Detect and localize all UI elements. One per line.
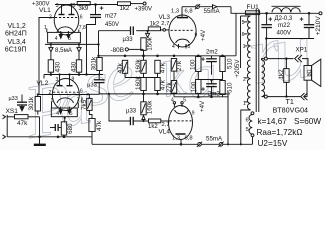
svg-text:1: 1	[243, 44, 246, 50]
svg-text:µ33: µ33	[87, 83, 97, 89]
svg-text:5: 5	[246, 127, 249, 133]
svg-text:430: 430	[55, 61, 62, 72]
svg-text:3k9: 3k9	[79, 6, 89, 12]
svg-text:450V: 450V	[105, 22, 119, 28]
svg-text:6: 6	[80, 15, 83, 21]
svg-text:4: 4	[171, 97, 174, 103]
svg-text:100: 100	[190, 59, 197, 70]
svg-text:1k2: 1k2	[148, 124, 158, 130]
svg-text:3: 3	[56, 77, 59, 83]
svg-text:160k: 160k	[135, 75, 142, 90]
svg-text:ХР1: ХР1	[296, 47, 308, 54]
svg-text:m27: m27	[105, 14, 117, 20]
svg-text:5: 5	[183, 97, 186, 103]
svg-text:+210V: +210V	[315, 16, 322, 36]
svg-text:1k2: 1k2	[150, 22, 160, 28]
svg-text:47k: 47k	[160, 62, 167, 73]
svg-text:430: 430	[70, 61, 77, 72]
svg-text:4: 4	[55, 36, 58, 42]
svg-text:+: +	[300, 17, 304, 24]
svg-text:5: 5	[242, 20, 245, 26]
svg-text:6: 6	[80, 89, 83, 95]
svg-text:Raa=1,72kΩ: Raa=1,72kΩ	[257, 128, 303, 137]
svg-text:301k: 301k	[28, 96, 35, 111]
svg-text:U2=15V: U2=15V	[258, 139, 288, 148]
svg-text:1: 1	[51, 98, 54, 104]
svg-text:µ33: µ33	[123, 37, 134, 43]
svg-text:1,3: 1,3	[172, 135, 180, 141]
svg-text:VL4: VL4	[159, 129, 171, 136]
svg-text:6: 6	[242, 32, 245, 38]
svg-text:8,5мА: 8,5мА	[55, 47, 73, 54]
svg-text:9: 9	[195, 33, 198, 39]
svg-text:55mA: 55mA	[206, 135, 223, 142]
svg-text:47k: 47k	[117, 62, 124, 73]
svg-text:FU1: FU1	[247, 4, 260, 11]
svg-text:4: 4	[172, 44, 175, 50]
svg-text:VL3: VL3	[159, 14, 171, 21]
svg-text:47k: 47k	[17, 120, 28, 127]
svg-text:5: 5	[188, 44, 191, 50]
svg-text:160k: 160k	[135, 58, 142, 73]
svg-text:160k: 160k	[147, 100, 154, 115]
svg-text:2m2: 2m2	[206, 49, 218, 55]
svg-text:VL1: VL1	[39, 7, 51, 14]
svg-text:680: 680	[67, 123, 74, 134]
svg-text:6,8: 6,8	[185, 135, 193, 141]
svg-text:+4V: +4V	[199, 100, 206, 112]
svg-text:VL1,2: VL1,2	[8, 23, 26, 30]
svg-text:4: 4	[56, 111, 59, 117]
svg-text:8Ω: 8Ω	[307, 69, 313, 76]
svg-text:510: 510	[226, 82, 233, 93]
svg-text:6Н24П: 6Н24П	[5, 30, 27, 37]
svg-text:XS1: XS1	[6, 108, 19, 115]
svg-text:S=60W: S=60W	[294, 117, 321, 126]
svg-text:2m2: 2m2	[208, 91, 220, 97]
svg-text:VL3,4: VL3,4	[8, 39, 26, 46]
svg-text:7,8: 7,8	[79, 25, 86, 31]
svg-text:6,8: 6,8	[185, 9, 193, 15]
svg-text:µ33: µ33	[126, 109, 137, 115]
svg-text:150k: 150k	[146, 36, 153, 51]
svg-text:1k2: 1k2	[120, 6, 130, 12]
svg-text:k=14,67: k=14,67	[258, 117, 288, 126]
svg-text:9: 9	[192, 111, 195, 117]
svg-text:+: +	[100, 6, 104, 13]
svg-text:+: +	[201, 57, 205, 64]
svg-text:-80B: -80B	[111, 47, 125, 54]
svg-text:55mA: 55mA	[204, 8, 221, 15]
svg-text:BT80VG04: BT80VG04	[273, 105, 309, 114]
svg-text:1k2: 1k2	[278, 69, 285, 80]
svg-text:9: 9	[72, 77, 75, 83]
svg-text:1,3: 1,3	[171, 9, 179, 15]
svg-text:7k5: 7k5	[81, 99, 88, 110]
svg-text:27k: 27k	[166, 81, 173, 92]
svg-text:400V: 400V	[277, 29, 292, 36]
svg-text:510: 510	[226, 58, 233, 69]
svg-text:µ33: µ33	[9, 96, 18, 102]
svg-text:+: +	[201, 87, 205, 94]
svg-text:VL2: VL2	[37, 80, 49, 87]
svg-text:27k: 27k	[176, 60, 183, 71]
svg-text:47k: 47k	[96, 120, 103, 131]
svg-text:m22: m22	[278, 22, 291, 29]
svg-text:6: 6	[246, 118, 249, 124]
svg-text:+390V: +390V	[135, 6, 153, 12]
svg-text:+4V: +4V	[200, 29, 207, 41]
svg-text:+: +	[268, 17, 272, 24]
svg-text:301k: 301k	[91, 56, 98, 71]
svg-text:6С19П: 6С19П	[5, 47, 27, 54]
svg-text:100: 100	[190, 81, 197, 92]
svg-text:2,7: 2,7	[161, 21, 169, 27]
svg-text:Д2-0,3: Д2-0,3	[275, 16, 293, 22]
